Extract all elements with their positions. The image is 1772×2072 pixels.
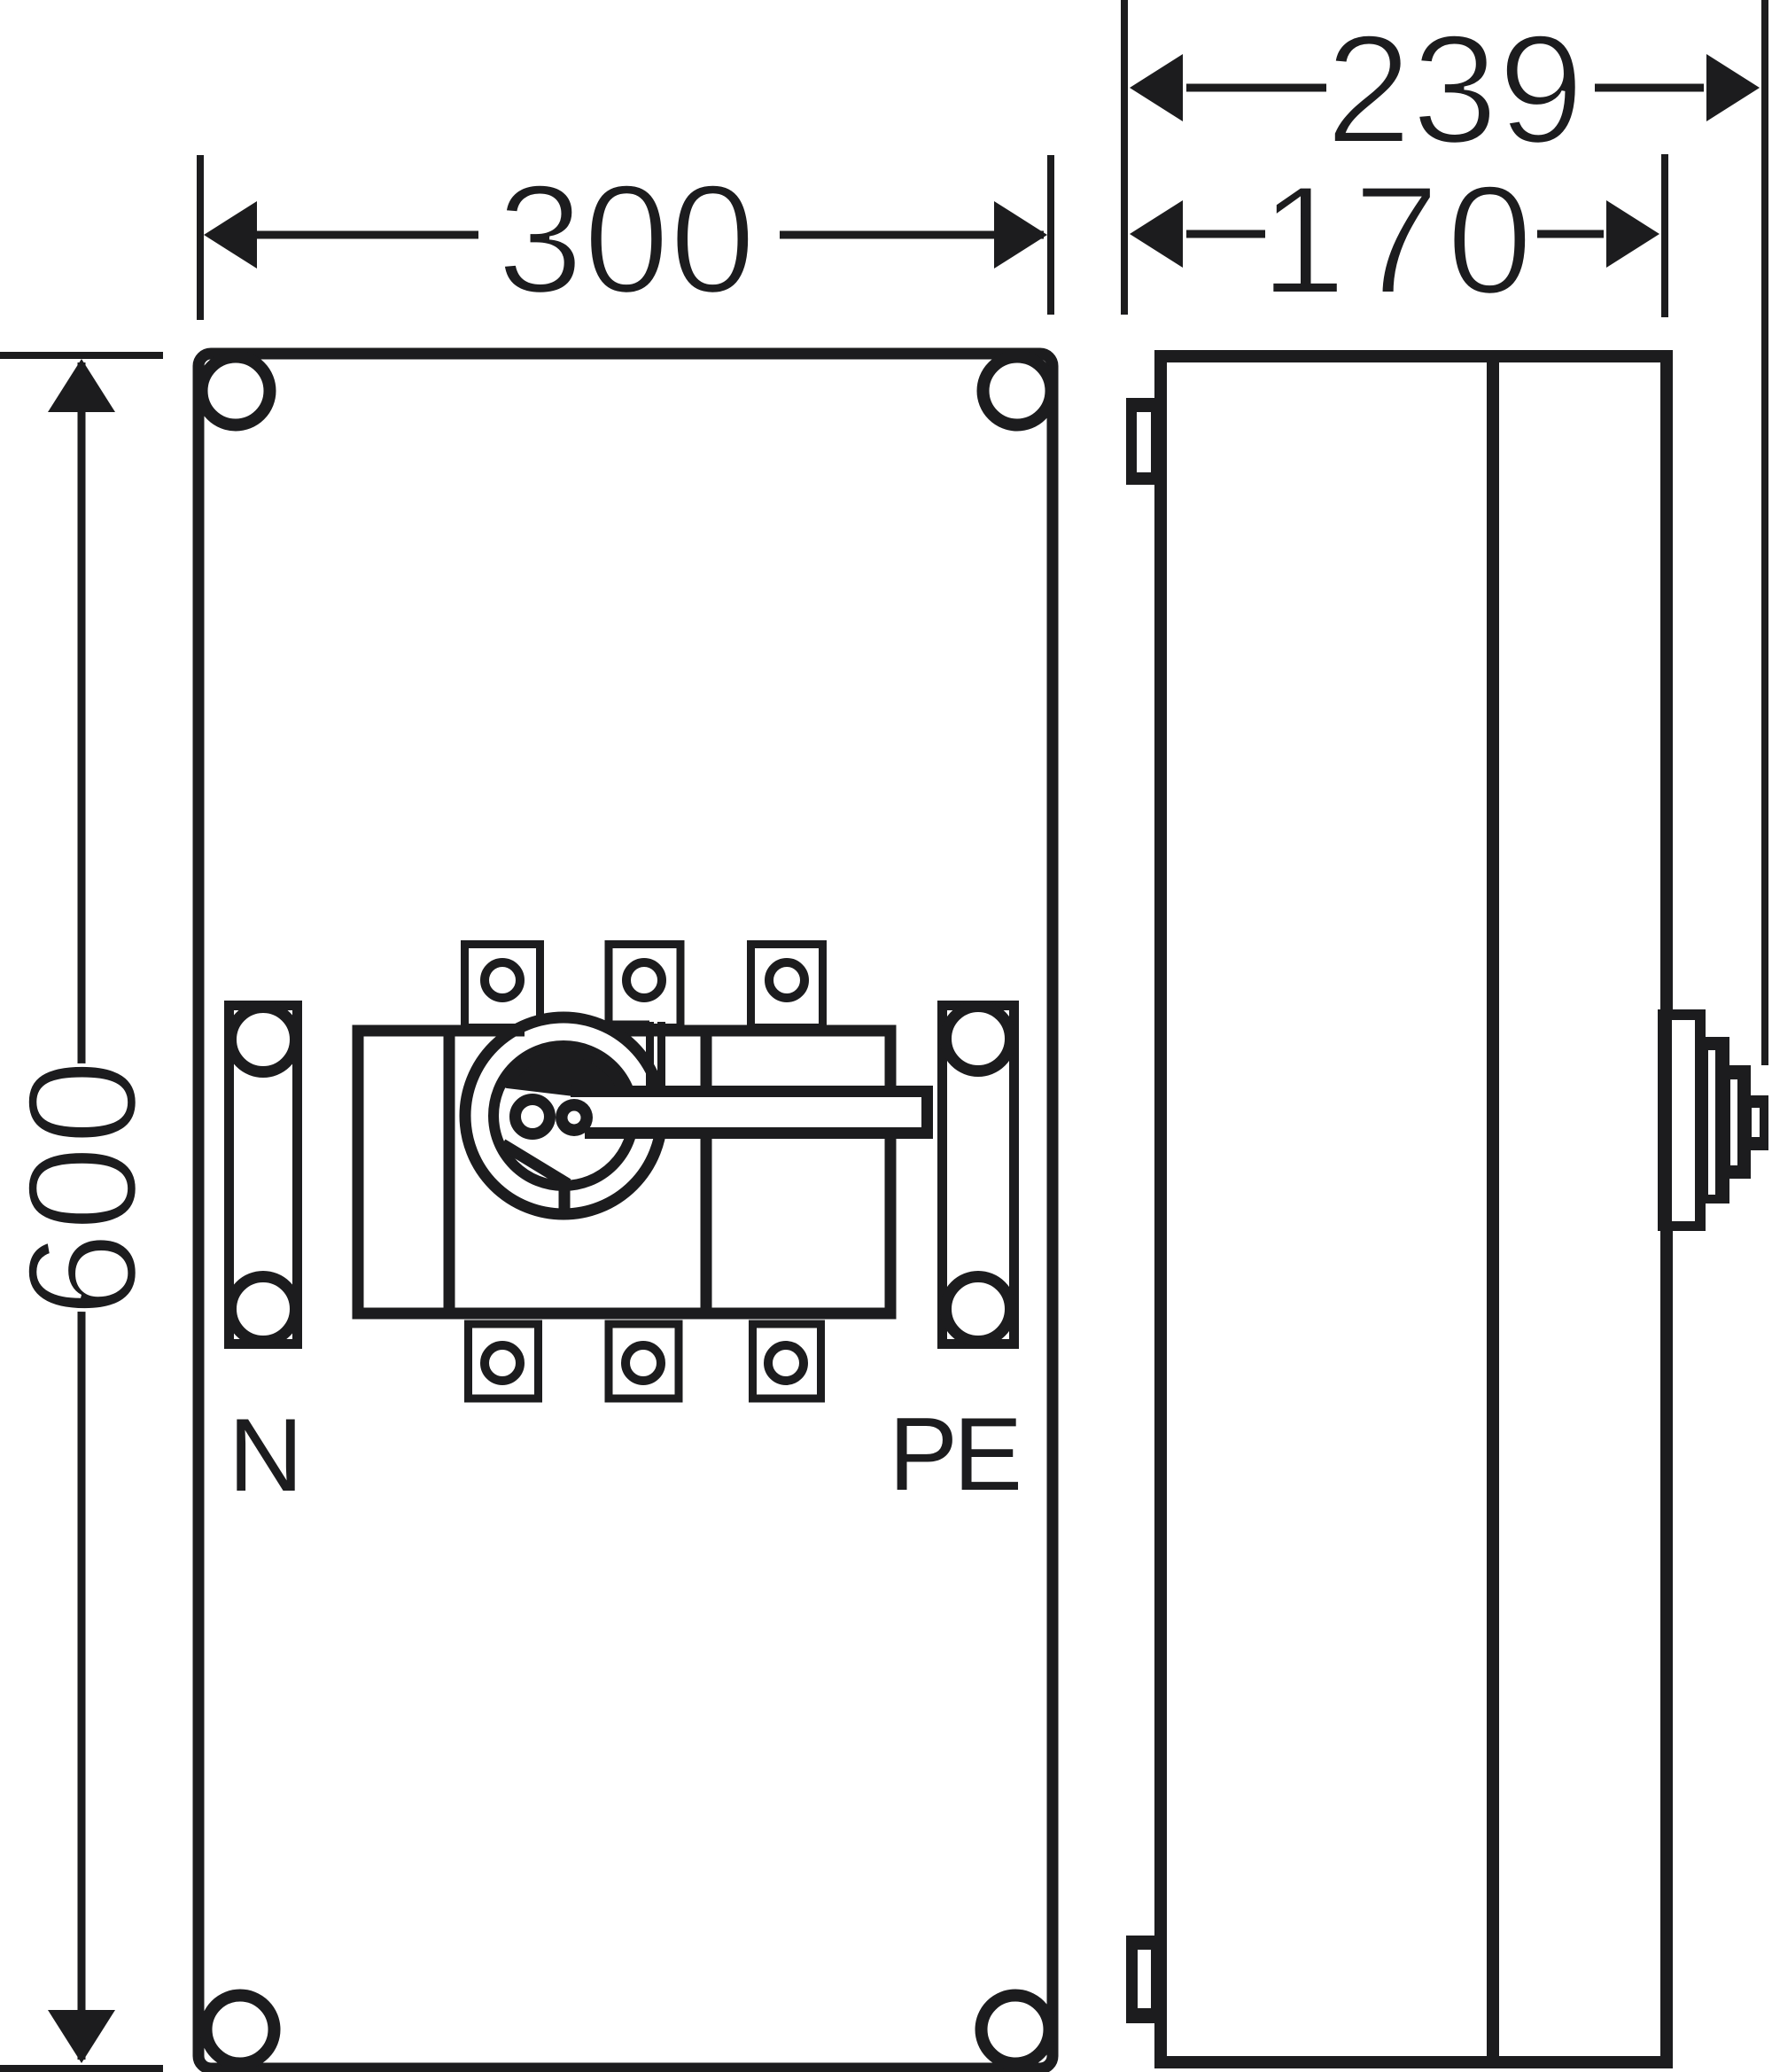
handle bar xyxy=(571,1086,933,1139)
svg-text:600: 600 xyxy=(0,1059,169,1318)
flange step 4 xyxy=(1751,1095,1768,1150)
svg-text:239: 239 xyxy=(1325,4,1584,176)
flange step 3 xyxy=(1729,1065,1751,1179)
screw top-left xyxy=(202,357,270,425)
escutcheon notch left edge xyxy=(646,1022,654,1088)
escutcheon notch right edge xyxy=(657,1022,665,1088)
dimension 300 line and arrows xyxy=(204,201,1047,269)
switch top terminal 2 xyxy=(609,945,680,1028)
svg-text:170: 170 xyxy=(1260,154,1540,327)
screw top-right xyxy=(983,357,1052,425)
switch disconnector body xyxy=(358,1031,890,1313)
dimension 239 line and arrows xyxy=(1130,54,1760,121)
svg-text:300: 300 xyxy=(497,153,756,326)
dimension 170 extension line right xyxy=(1661,154,1668,317)
dimension 170 text xyxy=(1260,154,1540,327)
switch bottom terminal 2 xyxy=(609,1324,679,1398)
switch body left divider xyxy=(444,1031,455,1313)
dimension 239 extension line left xyxy=(1121,0,1128,315)
grip lower diagonal xyxy=(502,1144,568,1184)
rotary handle knob disc xyxy=(494,1046,633,1186)
hinge bottom xyxy=(1126,1936,1163,2023)
N terminal block xyxy=(229,1006,298,1344)
escutcheon notch jog xyxy=(601,1021,649,1031)
screw bottom-left xyxy=(206,1996,275,2064)
dimension 600 text xyxy=(0,1059,169,1318)
dimension 239 extension line right xyxy=(1761,0,1768,1065)
switch bottom terminal 1 xyxy=(469,1324,539,1398)
flange step 2 xyxy=(1704,1037,1729,1203)
handle pivot dot xyxy=(556,1099,593,1136)
rotary handle escutcheon ring xyxy=(465,1017,662,1214)
screw bottom-right xyxy=(982,1996,1050,2064)
switch top terminal 1 xyxy=(465,945,540,1028)
rotary handle escutcheon backing xyxy=(460,1012,667,1219)
flange step 1 xyxy=(1658,1009,1706,1231)
side view enclosure xyxy=(1161,356,1667,2062)
dimension 239 text xyxy=(1325,4,1584,176)
dimension 300 extension line right xyxy=(1047,155,1054,315)
label PE xyxy=(889,1396,1019,1512)
grip bottom stub xyxy=(559,1179,571,1213)
dimension 300 text xyxy=(497,153,756,326)
switch body top edge right segment xyxy=(662,1025,890,1037)
label N xyxy=(229,1397,304,1513)
switch body top edge left segment xyxy=(358,1025,525,1037)
dimension 170 line and arrows xyxy=(1130,200,1659,268)
dimension 600 line and arrows xyxy=(48,359,115,2063)
PE terminal block xyxy=(943,1006,1014,1344)
side view cover/base divider xyxy=(1487,356,1499,2062)
svg-text:N: N xyxy=(229,1397,304,1513)
dimension 600 extension line bottom xyxy=(0,2065,163,2072)
handle hub xyxy=(516,1100,550,1134)
dimension 300 extension line left xyxy=(197,155,204,320)
svg-text:PE: PE xyxy=(889,1396,1019,1512)
front view enclosure outline xyxy=(198,354,1053,2068)
switch bottom terminal 3 xyxy=(753,1324,821,1398)
switch body right divider xyxy=(701,1031,712,1313)
rotary handle grip segment xyxy=(508,1051,626,1097)
switch top terminal 3 xyxy=(751,945,823,1028)
hinge top xyxy=(1126,398,1163,485)
dimension 600 extension line top xyxy=(0,352,163,359)
